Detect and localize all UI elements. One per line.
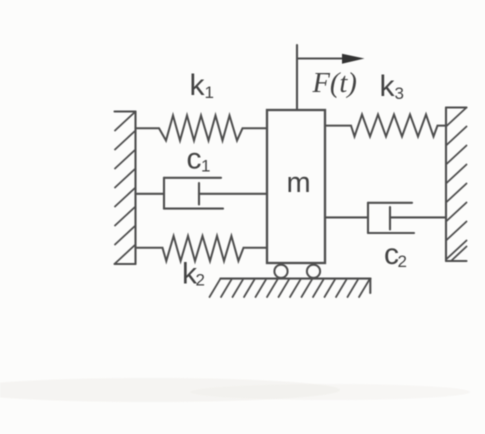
svg-text:c: c — [187, 143, 202, 176]
svg-text:2: 2 — [196, 271, 205, 290]
spring k2 — [136, 236, 268, 261]
ground — [210, 279, 371, 297]
svg-text:F(t): F(t) — [312, 68, 357, 99]
svg-text:3: 3 — [395, 84, 404, 103]
svg-text:2: 2 — [398, 252, 407, 271]
svg-text:k: k — [190, 69, 206, 102]
label c2 — [384, 238, 407, 271]
damper c2 — [325, 203, 446, 233]
right wall support — [446, 108, 467, 262]
force F(t) arrow — [297, 45, 365, 110]
svg-text:m: m — [287, 167, 311, 199]
left wall support — [115, 112, 136, 265]
label k1 — [190, 69, 214, 102]
label k3 — [380, 70, 404, 103]
damper c1 — [136, 178, 268, 209]
label k2 — [182, 258, 205, 291]
svg-text:1: 1 — [205, 83, 214, 102]
roller left — [274, 265, 287, 278]
mass block m — [267, 110, 325, 263]
svg-text:1: 1 — [201, 157, 210, 176]
spring k3 — [325, 115, 446, 137]
spring k1 — [136, 116, 268, 141]
label c1 — [187, 143, 211, 176]
svg-text:k: k — [380, 70, 396, 103]
roller right — [307, 265, 320, 278]
